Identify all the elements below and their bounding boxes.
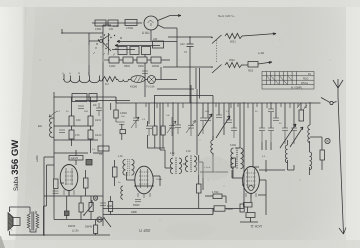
- svg-text:UCH 11: UCH 11: [250, 224, 262, 228]
- coil L11: [308, 125, 310, 143]
- terminal antenna socket: [330, 101, 333, 104]
- wire drops group A: [136, 85, 213, 156]
- wire speaker top: [10, 207, 31, 214]
- wire mid links: [199, 136, 233, 209]
- resistor R26: [197, 184, 202, 193]
- wire fuse arrow: [258, 62, 272, 65]
- trimmer CT6: [268, 128, 274, 142]
- capacitor C20: [142, 71, 148, 73]
- antenna A1: [333, 79, 343, 97]
- wire PSU right rail: [176, 28, 178, 67]
- resistor R20: [320, 150, 325, 160]
- svg-text:R5/Ω: R5/Ω: [303, 78, 309, 80]
- capacitor C4 across mains: [187, 37, 194, 67]
- wire center rail x103: [102, 95, 104, 226]
- svg-text:40Ω80: 40Ω80: [130, 86, 138, 89]
- capacitor C7: [53, 191, 59, 193]
- svg-text:17Ω: 17Ω: [75, 134, 80, 137]
- wire x71: [71, 97, 73, 146]
- trimmer CT1: [131, 117, 139, 128]
- inductor L14: [211, 140, 213, 153]
- switch pivot: [100, 40, 103, 43]
- wire bottom bus y214.5: [103, 209, 213, 215]
- svg-text:4,0n: 4,0n: [186, 150, 191, 153]
- svg-text:U AU: U AU: [142, 31, 150, 35]
- svg-text:0,002: 0,002: [230, 144, 237, 147]
- wire v3 bottom: [240, 140, 266, 222]
- resistor R16: [89, 203, 93, 212]
- svg-text:10nΩ: 10nΩ: [95, 119, 101, 122]
- svg-text:Δ 13h: Δ 13h: [72, 229, 79, 233]
- junction stubs on bus: [146, 103, 306, 108]
- wire y219 left: [54, 219, 103, 221]
- svg-text:2kΩ: 2kΩ: [84, 111, 88, 113]
- tube V2 UCH11: [135, 166, 153, 194]
- resistor R33: [94, 225, 98, 234]
- resistor R11: [69, 130, 74, 139]
- wire drops group C: [253, 103, 310, 167]
- capacitor C9: [135, 200, 141, 202]
- capacitor C8: [100, 203, 106, 206]
- svg-text:0,3MΩ: 0,3MΩ: [120, 113, 127, 115]
- capacitor box C21: [69, 156, 83, 161]
- svg-text:1nF: 1nF: [166, 115, 170, 117]
- fuse Si1: [95, 20, 106, 26]
- wire fuse line: [92, 22, 142, 24]
- resistor R5: [109, 57, 119, 63]
- capacitor C15: [268, 109, 274, 112]
- svg-text:5kΩ: 5kΩ: [205, 111, 209, 113]
- inductor L4 osc: [121, 186, 123, 199]
- svg-text:13Ω: 13Ω: [76, 119, 81, 122]
- resistor R10: [69, 116, 74, 126]
- svg-text:DW80: DW80: [226, 208, 234, 211]
- svg-text:40n: 40n: [93, 104, 98, 107]
- trimmer CT5: [259, 128, 265, 142]
- wire y126: [54, 125, 88, 127]
- tube V1 UCL11: [60, 165, 78, 191]
- resistor R21: [213, 194, 222, 199]
- output transformer T2 primary: [27, 214, 30, 228]
- noise specks: [39, 39, 330, 220]
- wire tube v3 links: [242, 180, 266, 209]
- switch S4: [104, 218, 111, 227]
- resistor R32: [79, 203, 83, 212]
- wire la3: [310, 137, 322, 143]
- wire x90: [90, 97, 92, 153]
- svg-text:0,65A: 0,65A: [95, 28, 102, 31]
- svg-text:1700Ω: 1700Ω: [126, 27, 133, 30]
- wire mains upper to switch: [168, 36, 212, 38]
- IF transformer T3: [123, 159, 134, 176]
- wire speaker bottom: [10, 231, 44, 235]
- capacitor C13: [216, 115, 222, 118]
- capacitor C17 box DW80: [214, 206, 225, 211]
- lamp La3: [325, 138, 330, 143]
- svg-text:250Ω: 250Ω: [138, 65, 144, 68]
- resistor R15: [84, 178, 89, 188]
- lamp La4: [93, 196, 97, 200]
- wire y140: [54, 139, 98, 141]
- wire PSU feed down: [144, 55, 146, 98]
- capacitor C24 electrolytic: [65, 211, 70, 216]
- resistor R25: [231, 158, 236, 167]
- svg-text:Ein: Ein: [38, 124, 43, 128]
- resistor R13: [88, 130, 93, 139]
- switch S2a: [212, 35, 222, 44]
- variable capacitor CV3: [282, 128, 288, 144]
- trimmer CT2: [167, 117, 176, 136]
- coil L7: [185, 156, 188, 172]
- tube chart table: [262, 72, 314, 90]
- svg-text:a-Wkt: a-Wkt: [35, 155, 39, 162]
- inductor L1 heater bumps: [64, 80, 103, 83]
- wire r21: [205, 196, 226, 203]
- capacitor C23: [78, 106, 84, 108]
- fuse Si2: [108, 20, 118, 26]
- wire y196 left: [44, 195, 103, 197]
- corner shadow: [0, 236, 5, 248]
- svg-text:125: 125: [109, 28, 114, 31]
- svg-text:R 2: R 2: [105, 83, 109, 86]
- resistor R9 zigzag: [103, 77, 117, 82]
- wire y153: [54, 152, 103, 154]
- wire W21 output arrow: [242, 33, 276, 36]
- wire tube v2 links: [127, 150, 204, 190]
- svg-text:U 480: U 480: [139, 228, 151, 233]
- scatter labels: [57, 107, 307, 184]
- resistor R4: [153, 41, 164, 48]
- svg-text:W21: W21: [230, 40, 236, 44]
- svg-text:W22: W22: [229, 58, 235, 62]
- switch S3: [84, 206, 92, 216]
- wire r23 r24: [148, 121, 166, 148]
- wire main bus left y97: [54, 96, 116, 98]
- capacitor C19: [119, 122, 125, 124]
- coil L9: [231, 148, 234, 169]
- junction dots bus: [154, 102, 155, 103]
- svg-text:A13: A13: [180, 42, 185, 46]
- variable capacitor CV2: [205, 118, 211, 121]
- wire bottom bus y208.5: [103, 208, 244, 210]
- wire right links: [253, 140, 310, 175]
- wire PSU left rail: [102, 25, 104, 95]
- coil L12: [285, 145, 287, 163]
- wire rectifier cathode drop: [150, 30, 152, 41]
- switch linkage: [216, 40, 218, 62]
- output transformer T2 secondary: [36, 214, 39, 228]
- contact box K2: [89, 94, 97, 102]
- wire sub bus y95.5: [154, 95, 213, 97]
- svg-text:W5/Ge: W5/Ge: [301, 83, 309, 85]
- capacitor C14: [226, 120, 232, 123]
- svg-text:1μF25: 1μF25: [71, 156, 79, 160]
- transformer core: [32, 212, 34, 231]
- svg-text:12mA: 12mA: [156, 178, 162, 181]
- wire into pivot: [89, 40, 100, 42]
- tube V3 UCH11: [243, 167, 260, 194]
- svg-text:DW40: DW40: [68, 224, 76, 228]
- svg-text:N52: N52: [248, 69, 254, 73]
- smudge stains: [70, 45, 231, 238]
- trimmer CT3: [186, 121, 196, 137]
- inductor L2: [118, 80, 128, 82]
- resistor R6: [123, 57, 133, 63]
- capacitor C1: [118, 47, 127, 55]
- svg-text:DW5: DW5: [107, 205, 113, 208]
- wire speaker leads: [44, 165, 55, 235]
- contact box K1: [72, 94, 87, 102]
- wire x322: [321, 143, 323, 170]
- capacitor C2: [130, 47, 139, 55]
- coil L6: [179, 158, 182, 174]
- heater chain wire: [63, 79, 177, 81]
- node j1: [189, 36, 191, 38]
- coil L13: [310, 152, 312, 170]
- svg-text:350Ω: 350Ω: [124, 65, 130, 68]
- svg-text:A33: A33: [153, 38, 158, 41]
- wire drops group B: [219, 103, 244, 185]
- wire coil links right: [232, 148, 294, 178]
- wire lamp up: [160, 67, 162, 80]
- wire x115: [114, 160, 116, 186]
- svg-text:DW40: DW40: [85, 225, 93, 229]
- wire tap arrow 2: [115, 44, 160, 46]
- resistor R14: [54, 179, 59, 189]
- wire circle to rail: [158, 25, 177, 28]
- wire left PSU vertical: [88, 33, 90, 76]
- svg-text:1,0n: 1,0n: [118, 155, 123, 158]
- resistor R8: [151, 57, 161, 63]
- wire r27 c19 links: [116, 103, 119, 122]
- switch antenna blade: [321, 98, 337, 103]
- capacitor C22: [59, 130, 65, 132]
- wire to mains label: [158, 15, 181, 21]
- resistor R22: [244, 203, 253, 208]
- resistor R31 dark: [86, 160, 92, 166]
- node b1: [61, 32, 63, 34]
- resistor R23: [153, 126, 157, 135]
- resistor R28: [120, 130, 126, 134]
- capacitor C18: [246, 213, 255, 218]
- heater taps: [64, 74, 100, 80]
- svg-text:2000Ω: 2000Ω: [152, 65, 159, 68]
- inductor L3 antenna coil: [50, 118, 54, 137]
- lamp La1: [148, 76, 156, 84]
- resistor R19: [299, 110, 304, 121]
- resistor R18: [113, 167, 118, 177]
- svg-text:7V 0,6A: 7V 0,6A: [146, 86, 155, 89]
- capacitor C5: [96, 103, 102, 116]
- wire transformer down feeds: [190, 67, 200, 103]
- resistor R12: [88, 116, 93, 126]
- coil L10: [241, 148, 244, 169]
- svg-text:DW40: DW40: [133, 204, 140, 207]
- capacitor C3: [142, 47, 151, 55]
- switch S2b: [212, 65, 222, 74]
- wire transformer links: [30, 211, 36, 232]
- trimmer CT4: [231, 128, 237, 138]
- wire bottom left y235: [43, 234, 110, 236]
- resistor R24: [161, 126, 165, 135]
- svg-text:a 4Ω: a 4Ω: [258, 51, 264, 55]
- svg-text:Δ98h: Δ98h: [131, 210, 138, 214]
- svg-text:W. KOMPL: W. KOMPL: [291, 87, 303, 89]
- urdox resistor U1: [131, 76, 145, 83]
- speaker voice coil: [13, 218, 20, 226]
- wire sub bus y89: [157, 88, 194, 90]
- arrow lead end: [339, 228, 346, 235]
- svg-text:Netz 220 V~: Netz 220 V~: [218, 14, 235, 18]
- capacitor C16: [273, 118, 279, 121]
- rectifier tube UY11: [144, 16, 158, 30]
- resistor R7: [137, 57, 147, 63]
- inductor W22: [225, 62, 242, 67]
- wire left rail x54: [53, 92, 55, 160]
- diagonal adjust marks: [297, 103, 307, 110]
- wire tap arrow 1: [117, 40, 177, 42]
- fuse N52: [248, 62, 258, 68]
- resistor R1: [125, 20, 137, 26]
- variable capacitor CV1: [200, 118, 206, 134]
- wire mains lower to switch: [163, 66, 212, 68]
- svg-text:4,70Ω: 4,70Ω: [212, 191, 219, 194]
- circle v3 top cap: [249, 186, 254, 191]
- wire bend y49.5: [112, 49, 135, 51]
- svg-text:3,2kΩ: 3,2kΩ: [109, 65, 116, 68]
- speaker LS: [8, 213, 13, 231]
- svg-text:G: G: [69, 73, 71, 75]
- wire antenna lead-in: [338, 97, 344, 234]
- resistor R17: [109, 202, 113, 212]
- variable capacitor CV4: [291, 128, 297, 144]
- wire main bus y103: [116, 97, 310, 103]
- resistor R29: [240, 204, 244, 212]
- wire y100: [75, 100, 130, 102]
- lamp La2: [97, 217, 102, 222]
- coil L5: [170, 158, 173, 174]
- wire top feed: [103, 24, 111, 26]
- resistor R27: [114, 110, 118, 118]
- capacitor C10: [146, 126, 152, 136]
- wire mains input: [62, 29, 103, 33]
- wire W22 to fuse: [241, 64, 248, 66]
- capacitor C12: [175, 125, 181, 134]
- capacitor C6 box: [98, 146, 109, 151]
- switch S1 rotary fan: [93, 33, 122, 56]
- wire x110: [111, 103, 122, 140]
- wire antenna to bus: [310, 102, 321, 104]
- coil L8: [194, 156, 197, 172]
- inductor W21: [225, 33, 242, 38]
- wire left rail lower: [44, 157, 54, 236]
- wire resistor row: [104, 59, 170, 61]
- svg-text:10n/Ω: 10n/Ω: [95, 134, 102, 137]
- wire v1 links: [54, 150, 111, 235]
